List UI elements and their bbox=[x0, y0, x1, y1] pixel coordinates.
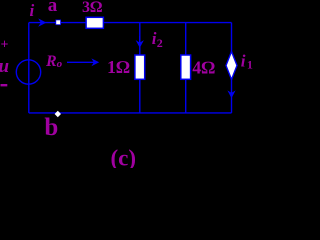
wire left vertical through source bbox=[28, 23, 30, 113]
resistor 1 ohm box bbox=[135, 55, 145, 79]
svg-text:b: b bbox=[44, 114, 58, 141]
svg-text:Ro: Ro bbox=[45, 53, 63, 70]
node b terminal marker bbox=[55, 111, 61, 118]
minus sign of source bbox=[1, 84, 8, 86]
current arrow i2 on branch 1 bbox=[136, 40, 144, 48]
svg-text:3Ω: 3Ω bbox=[82, 0, 102, 16]
arrow for Ro pointing right bbox=[67, 61, 94, 63]
resistor 4 ohm box bbox=[181, 55, 191, 79]
wire top from node corner to right corner bbox=[29, 22, 232, 24]
svg-text:1: 1 bbox=[247, 58, 253, 72]
wire branch 2 vertical (4 ohm) bbox=[185, 23, 187, 113]
svg-text:2: 2 bbox=[157, 36, 163, 50]
svg-text:1Ω: 1Ω bbox=[107, 57, 130, 77]
dependent current source diamond bbox=[226, 52, 237, 80]
current arrow i on top wire bbox=[38, 18, 46, 26]
svg-text:a: a bbox=[48, 0, 58, 16]
svg-text:(c): (c) bbox=[111, 145, 137, 168]
voltage source u (circle) bbox=[16, 60, 40, 84]
wire branch 1 vertical (1 ohm) bbox=[139, 23, 141, 113]
resistor R 3 ohm box bbox=[86, 17, 103, 28]
svg-text:u: u bbox=[0, 56, 9, 77]
wire right vertical (dependent source branch) bbox=[231, 23, 233, 113]
svg-text:4Ω: 4Ω bbox=[192, 58, 215, 78]
node a terminal square bbox=[56, 20, 61, 25]
svg-text:i: i bbox=[30, 1, 35, 20]
svg-text:+: + bbox=[1, 38, 9, 53]
arrow of dependent source pointing down bbox=[227, 90, 235, 98]
wire bottom from left corner to right corner bbox=[29, 112, 232, 114]
svg-text:i: i bbox=[241, 51, 246, 70]
